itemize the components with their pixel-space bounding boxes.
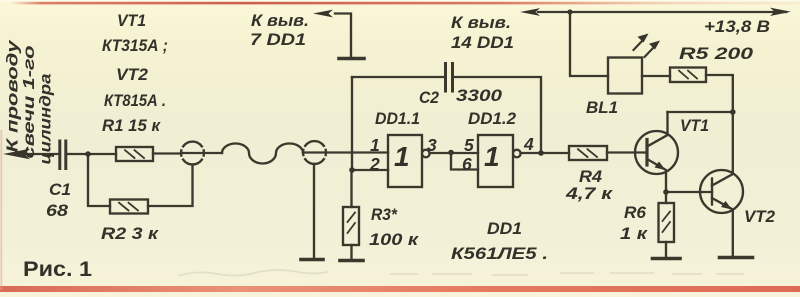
svg-text:14 DD1: 14 DD1	[451, 33, 514, 52]
top red rule	[10, 2, 800, 5]
svg-text:3: 3	[427, 135, 437, 155]
ground (pin 7 stub)	[339, 57, 364, 61]
pin numbers	[369, 134, 534, 174]
wire: R3 to ground	[350, 245, 352, 259]
svg-text:4: 4	[523, 134, 534, 154]
resistor R2	[110, 200, 148, 214]
svg-text:+13,8 В: +13,8 В	[704, 17, 770, 36]
node pin2 junction	[349, 167, 355, 173]
svg-text:1: 1	[370, 135, 380, 155]
VT1 base bar	[645, 140, 648, 166]
VT2 emitter arrow	[721, 201, 732, 210]
resistor R1	[116, 147, 153, 161]
wire: input line from arrow to C1	[20, 153, 58, 155]
svg-text:КТ815А .: КТ815А .	[104, 91, 166, 110]
wire: C2 right to pin4 node	[454, 77, 541, 153]
wire: R6 to ground	[665, 242, 667, 257]
connector X2 (dashed circle)	[303, 141, 326, 164]
svg-text:R5 200: R5 200	[679, 44, 754, 63]
wire: emitter node to VT2 base	[666, 191, 712, 193]
svg-text:5: 5	[464, 135, 474, 155]
VT2 collector	[712, 112, 733, 186]
svg-text:КТ315А ;: КТ315А ;	[102, 36, 168, 55]
svg-text:VT1: VT1	[117, 11, 146, 30]
wire: R2 branch down from node A	[88, 154, 110, 206]
transistor Q1: VT1 circle	[635, 131, 678, 174]
svg-text:68: 68	[46, 201, 69, 220]
wire: DD1.2 out to R4	[521, 152, 569, 154]
node A (C1/R1/R2 junction)	[85, 151, 91, 157]
wire: R6 stub	[665, 192, 667, 203]
wire: DD1.1 out to DD1.2 in	[430, 152, 478, 154]
DD1.2 output bubble	[513, 150, 521, 158]
wire: feedback vertical + pin2	[352, 77, 388, 170]
svg-text:100 к: 100 к	[369, 230, 420, 249]
svg-text:К проводу: К проводу	[5, 39, 22, 153]
VT1 collector	[647, 112, 668, 147]
op-amp U1: DD1.2 gate body	[478, 135, 513, 187]
rotated input label	[5, 39, 55, 165]
node emitter junction	[663, 189, 669, 195]
svg-text:1 к: 1 к	[620, 224, 649, 243]
capacitor C2	[446, 64, 453, 92]
VT1 emitter arrow	[655, 162, 666, 171]
svg-text:R3*: R3*	[371, 205, 398, 224]
wire: rail down to BL1	[570, 12, 608, 76]
arrow to pin 14 DD1	[520, 8, 540, 16]
wire: top supply rail	[538, 11, 786, 13]
faint bleedthrough marks	[178, 270, 744, 276]
op-amp U1: DD1.1 gate body	[388, 135, 422, 187]
svg-text:DD1: DD1	[487, 219, 522, 238]
lamp BL1	[608, 58, 642, 94]
node pin4 junction	[538, 150, 544, 156]
supply arrow right (+13,8V)	[770, 8, 791, 16]
svg-text:цилиндра: цилиндра	[38, 73, 55, 164]
node output3 junction	[448, 150, 454, 156]
svg-text:К561ЛЕ5 .: К561ЛЕ5 .	[451, 244, 548, 263]
node collector junction	[730, 109, 736, 115]
svg-text:R6: R6	[624, 203, 647, 222]
svg-text:4,7 к: 4,7 к	[565, 184, 614, 203]
svg-text:R1 15 к: R1 15 к	[102, 116, 161, 135]
svg-text:3300: 3300	[456, 86, 503, 105]
wire through X1	[181, 152, 222, 154]
node rail junction	[567, 9, 572, 14]
ground (under R3)	[340, 259, 363, 263]
resistor R6	[659, 203, 675, 242]
svg-text:6: 6	[462, 154, 472, 174]
svg-text:1: 1	[394, 141, 410, 172]
capacitor C1	[60, 141, 66, 169]
resistor R3	[343, 207, 359, 245]
wire: R5 right down to collector node	[706, 75, 733, 112]
svg-text:2: 2	[369, 154, 380, 174]
VT2 base bar	[711, 179, 713, 205]
ground (under X2)	[301, 258, 323, 262]
svg-text:BL1: BL1	[586, 98, 618, 117]
svg-text:1: 1	[484, 141, 500, 172]
svg-text:Рис. 1: Рис. 1	[23, 257, 92, 281]
svg-text:К выв.: К выв.	[251, 11, 309, 30]
wire: X2 to DD1.1 pin 1	[303, 151, 388, 153]
wire: BL1 to R5	[642, 75, 670, 77]
bottom red rule	[0, 286, 800, 292]
svg-text:С1: С1	[49, 180, 71, 199]
svg-text:VT2: VT2	[116, 65, 149, 84]
resistor R4	[569, 146, 607, 160]
DD1.1 output bubble	[422, 150, 430, 158]
VT2 emitter	[712, 198, 733, 256]
svg-text:С2: С2	[419, 88, 439, 107]
arrow to pin 7 DD1	[313, 10, 333, 18]
svg-text:7 DD1: 7 DD1	[250, 30, 306, 49]
wire: X2 down to ground	[313, 164, 315, 258]
svg-text:DD1.2: DD1.2	[468, 109, 517, 128]
wire: C1 to R1	[67, 153, 116, 155]
svg-text:R2 3 к: R2 3 к	[101, 224, 160, 243]
BL1 emission arrows	[634, 34, 661, 58]
wire: collector node to VT1 collector	[668, 111, 733, 113]
ground (under R6)	[653, 257, 681, 261]
wire: R1 to connector X1	[153, 152, 181, 154]
left red rule	[1, 130, 3, 290]
VT1 emitter	[647, 159, 666, 192]
flexible wire (wavy)	[222, 144, 303, 164]
svg-text:свечи 1-го: свечи 1-го	[21, 46, 38, 159]
input arrow (to spark plug wire)	[3, 149, 30, 159]
svg-text:VT2: VT2	[744, 207, 776, 226]
svg-text:DD1.1: DD1.1	[375, 109, 420, 128]
wire: top C2 left	[352, 76, 444, 78]
wire: pin6 bracket	[451, 153, 478, 170]
svg-text:VT1: VT1	[680, 116, 709, 135]
resistor R5	[670, 68, 706, 83]
wire: R4 to VT1 base	[607, 151, 647, 153]
connector X1 (dashed circle)	[181, 142, 204, 165]
svg-text:К выв.: К выв.	[451, 13, 511, 32]
wire: R2 to X1 bottom	[148, 165, 193, 207]
ground (under VT2)	[720, 256, 753, 260]
transistor Q2: VT2 circle	[700, 170, 743, 213]
wire: R3 stub	[350, 170, 352, 207]
wire: pin7 stub	[335, 14, 351, 58]
